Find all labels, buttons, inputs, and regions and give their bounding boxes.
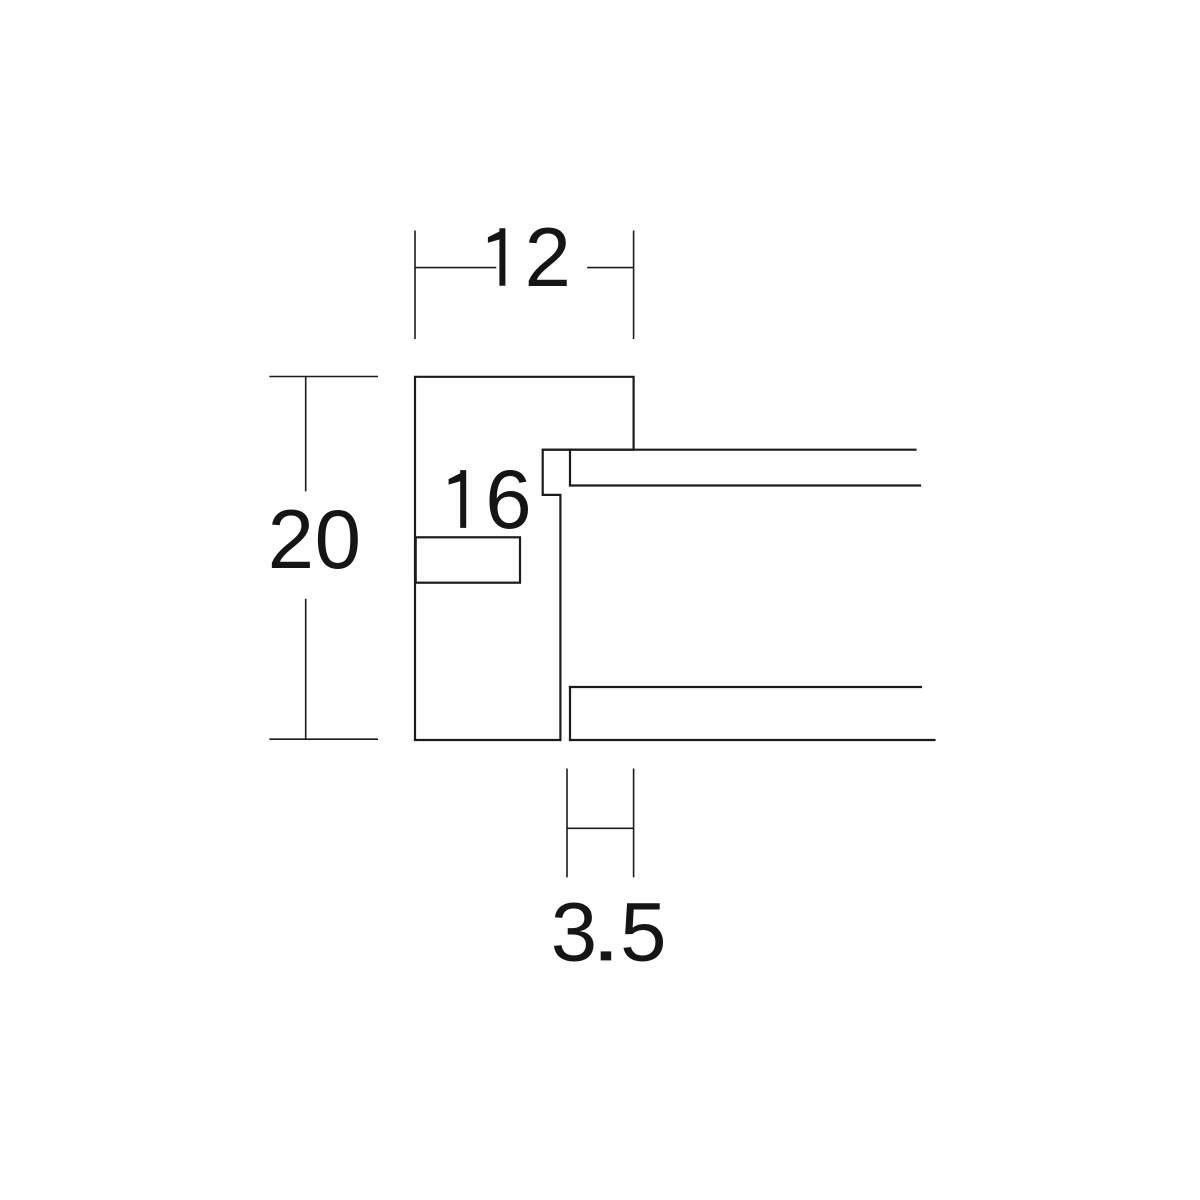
backing board bottom line	[570, 739, 935, 741]
glass sheet left edge	[569, 450, 571, 486]
dim 12: dimension line right segment	[587, 267, 633, 269]
dim text 3.5: decimal point (custom rect)	[601, 951, 612, 960]
svg-text:3: 3	[551, 884, 597, 978]
dim text 12: digit 1 (custom path)	[488, 228, 506, 285]
dim 20: dimension line lower segment	[305, 599, 307, 739]
svg-text:2: 2	[524, 210, 570, 304]
svg-text:2: 2	[268, 492, 314, 586]
glass sheet bottom line	[570, 484, 920, 486]
dim 12: right extension line	[633, 231, 635, 340]
backing board top line	[570, 686, 921, 688]
moulding profile outline	[415, 377, 634, 740]
dim 3.5: dimension line	[567, 827, 634, 829]
groove rectangle (16 label box)	[416, 537, 520, 582]
dim 12: dimension line left segment	[415, 267, 496, 269]
svg-text:6: 6	[485, 452, 531, 546]
dim 12: left extension line	[414, 231, 416, 340]
dim 3.5: left extension line	[566, 769, 568, 878]
dim 20: bottom extension line	[269, 738, 378, 740]
glass sheet top line	[543, 449, 916, 451]
dim 3.5: right extension line	[633, 769, 635, 878]
dim text 16: digit 1 (custom path)	[449, 470, 467, 528]
svg-text:5: 5	[620, 884, 666, 978]
dim 20: dimension line upper segment	[305, 377, 307, 492]
dim 20: top extension line	[269, 376, 378, 378]
svg-text:0: 0	[315, 492, 361, 586]
backing board left edge	[569, 687, 571, 740]
